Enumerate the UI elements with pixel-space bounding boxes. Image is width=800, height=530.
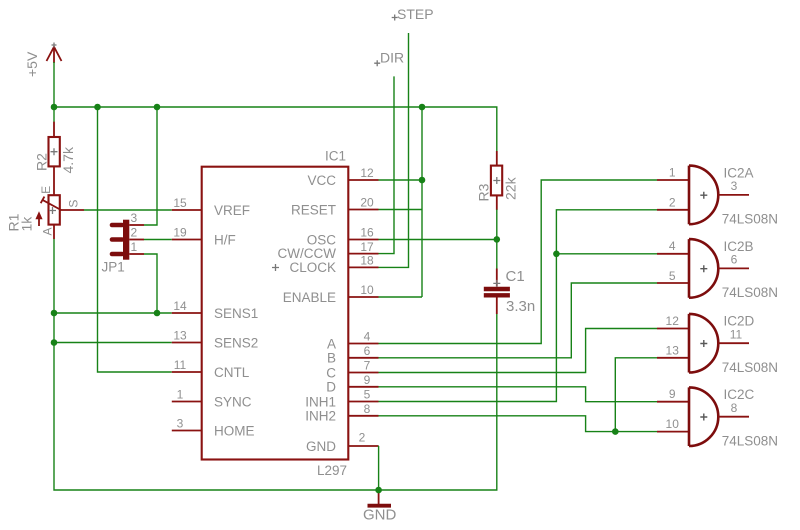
svg-text:VREF: VREF	[214, 203, 250, 218]
IC1 L297 box	[202, 149, 349, 479]
svg-text:A: A	[40, 227, 54, 235]
svg-text:GND: GND	[306, 439, 336, 454]
IC1 pin 16 OSC	[307, 226, 379, 248]
svg-text:2: 2	[131, 225, 138, 239]
svg-text:4: 4	[364, 330, 371, 344]
IC1 pin 1 SYNC	[172, 388, 252, 410]
wire JP1 pin2 to H/F	[144, 239, 172, 241]
svg-text:15: 15	[173, 196, 187, 210]
IC1 pin 9 D	[326, 373, 378, 395]
wire SENS2 row	[54, 342, 172, 344]
svg-text:RESET: RESET	[291, 202, 336, 217]
wire bus drop x=157 to JP1 pin3	[144, 107, 157, 225]
svg-text:A: A	[327, 336, 336, 351]
wire +5V to bus	[53, 62, 55, 122]
and-gate IC2D	[657, 314, 778, 375]
svg-text:C: C	[326, 365, 336, 380]
and-gate IC2A	[657, 165, 778, 226]
svg-text:R2: R2	[34, 153, 50, 171]
wire INH2 dot to gate IC2C pin10	[615, 431, 657, 433]
wire net A to gate IC2A pin1	[379, 180, 658, 344]
svg-text:HOME: HOME	[214, 423, 255, 438]
supply +5V symbol	[24, 43, 62, 78]
IC1 pin 20 RESET	[291, 196, 379, 218]
svg-text:5: 5	[364, 388, 371, 402]
svg-text:+5V: +5V	[24, 51, 40, 77]
IC1 pin 8 INH2	[305, 402, 378, 424]
svg-text:16: 16	[360, 226, 374, 240]
svg-text:6: 6	[364, 344, 371, 358]
resistor R2	[34, 122, 77, 196]
svg-text:2: 2	[359, 431, 366, 445]
svg-text:18: 18	[360, 254, 374, 268]
svg-text:13: 13	[173, 329, 187, 343]
svg-text:CW/CCW: CW/CCW	[278, 246, 337, 261]
svg-text:74LS08N: 74LS08N	[722, 285, 778, 300]
svg-text:IC2A: IC2A	[724, 165, 754, 180]
svg-text:20: 20	[360, 196, 374, 210]
svg-text:6: 6	[731, 253, 738, 267]
potentiometer R1	[6, 186, 85, 239]
wire INH2 dot up to gate IC2D pin13	[615, 358, 657, 432]
svg-text:INH1: INH1	[305, 394, 336, 409]
svg-text:SENS2: SENS2	[214, 335, 258, 350]
IC1 pin 13 SENS2	[172, 329, 258, 351]
svg-text:E: E	[39, 186, 53, 194]
svg-text:STEP: STEP	[397, 6, 434, 22]
wire net D to gate IC2C pin9	[379, 387, 658, 402]
wire INH1 branch to pin4	[556, 253, 657, 255]
svg-text:10: 10	[360, 283, 374, 297]
wire OSC pin16 to R3/C1 node	[379, 239, 497, 241]
svg-text:8: 8	[731, 401, 738, 415]
jumper JP1	[102, 211, 145, 275]
resistor R3	[475, 151, 518, 210]
and-gate IC2B	[657, 239, 778, 300]
wire DIR to CW/CCW	[379, 76, 395, 253]
svg-text:7: 7	[364, 359, 371, 373]
IC1 pin 14 SENS1	[172, 299, 258, 321]
node STEP label	[392, 6, 434, 22]
IC1 pin 10 ENABLE	[283, 283, 379, 305]
svg-text:ENABLE: ENABLE	[283, 290, 336, 305]
wire RESET pin20 to +5V drop	[379, 209, 423, 211]
svg-text:1: 1	[131, 240, 138, 254]
wire R1 wiper S to VREF	[84, 209, 172, 211]
svg-text:IC2D: IC2D	[724, 314, 755, 329]
wire STEP to CLOCK	[379, 33, 409, 267]
IC1 pin 4 A	[327, 330, 379, 352]
svg-text:74LS08N: 74LS08N	[722, 212, 778, 227]
wire R3 bottom to node	[496, 210, 498, 269]
capacitor C1	[484, 268, 535, 315]
wire net INH2 to dot	[379, 416, 616, 432]
svg-text:74LS08N: 74LS08N	[722, 433, 778, 448]
svg-text:CNTL: CNTL	[214, 365, 250, 380]
svg-text:10: 10	[666, 417, 680, 431]
svg-text:13: 13	[666, 343, 680, 357]
wire net INH1 to gate pins 2 and 4	[379, 210, 658, 402]
svg-text:SENS1: SENS1	[214, 306, 258, 321]
IC1 pin 7 C	[326, 359, 378, 381]
svg-text:JP1: JP1	[102, 260, 125, 275]
svg-text:DIR: DIR	[380, 50, 404, 66]
svg-text:SYNC: SYNC	[214, 394, 252, 409]
IC1 pin 15 VREF	[172, 196, 250, 218]
svg-text:CLOCK: CLOCK	[289, 260, 336, 275]
IC1 pin 5 INH1	[305, 388, 378, 410]
node junction dots	[51, 104, 619, 494]
wire JP1 pin1 to SENS rail	[144, 254, 157, 313]
svg-text:OSC: OSC	[307, 232, 337, 247]
svg-text:1: 1	[669, 166, 676, 180]
wire bus drop x=422 VCC net	[421, 107, 423, 297]
svg-text:3: 3	[177, 417, 184, 431]
svg-text:L297: L297	[317, 463, 347, 478]
svg-text:IC2C: IC2C	[724, 387, 755, 402]
svg-text:2: 2	[669, 196, 676, 210]
IC1 pin 3 HOME	[172, 417, 255, 439]
svg-text:5: 5	[669, 269, 676, 283]
wire ENABLE pin10 to +5V drop	[379, 296, 423, 298]
svg-text:INH2: INH2	[305, 409, 336, 424]
svg-text:14: 14	[173, 299, 187, 313]
svg-text:S: S	[67, 200, 81, 208]
IC1 pin 11 CNTL	[172, 358, 250, 380]
wire IC GND pin2 down to ground rail	[377, 445, 379, 447]
svg-text:9: 9	[669, 387, 676, 401]
svg-text:IC1: IC1	[325, 149, 346, 164]
svg-text:1k: 1k	[19, 216, 35, 232]
svg-text:17: 17	[360, 240, 374, 254]
svg-text:4: 4	[669, 239, 676, 253]
IC1 pin 18 CLOCK	[289, 254, 378, 276]
svg-text:74LS08N: 74LS08N	[722, 360, 778, 375]
IC1 pin 17 CW/CCW	[278, 240, 379, 261]
svg-text:11: 11	[174, 358, 187, 372]
svg-text:3.3n: 3.3n	[506, 298, 535, 315]
svg-text:H/F: H/F	[214, 232, 236, 247]
node DIR label	[374, 50, 404, 67]
ground GND symbol	[363, 490, 397, 524]
IC1 pin 2 GND	[306, 431, 379, 454]
wire net B to gate IC2B pin5	[379, 283, 658, 358]
svg-text:B: B	[327, 351, 336, 366]
svg-text:1: 1	[177, 388, 184, 402]
svg-text:19: 19	[173, 226, 187, 240]
wire SENS1 row	[54, 312, 172, 314]
svg-text:3: 3	[731, 179, 738, 193]
svg-text:9: 9	[364, 373, 371, 387]
svg-text:12: 12	[360, 166, 374, 180]
and-gate IC2C	[657, 387, 778, 448]
wire bus drop x=97.5 to CNTL	[98, 107, 172, 372]
IC1 pin 6 B	[327, 344, 379, 366]
svg-text:3: 3	[131, 211, 138, 225]
svg-text:R3: R3	[475, 183, 491, 201]
IC1 pin 12 VCC	[307, 166, 378, 188]
svg-text:IC2B: IC2B	[724, 239, 754, 254]
IC1 pin 19 H/F	[172, 226, 236, 248]
svg-text:8: 8	[364, 402, 371, 416]
wire net C to gate IC2D pin12	[379, 329, 658, 373]
svg-text:C1: C1	[506, 268, 525, 285]
svg-text:22k: 22k	[503, 176, 519, 200]
svg-text:4.7k: 4.7k	[60, 146, 76, 173]
svg-text:11: 11	[730, 328, 743, 342]
svg-text:VCC: VCC	[307, 173, 336, 188]
wire VCC pin12 to +5V drop	[379, 179, 423, 181]
wire R1 bottom to ground rail	[54, 239, 497, 490]
wire top +5V bus	[54, 107, 497, 152]
svg-text:GND: GND	[363, 507, 397, 524]
svg-text:D: D	[326, 380, 336, 395]
svg-text:12: 12	[666, 314, 680, 328]
